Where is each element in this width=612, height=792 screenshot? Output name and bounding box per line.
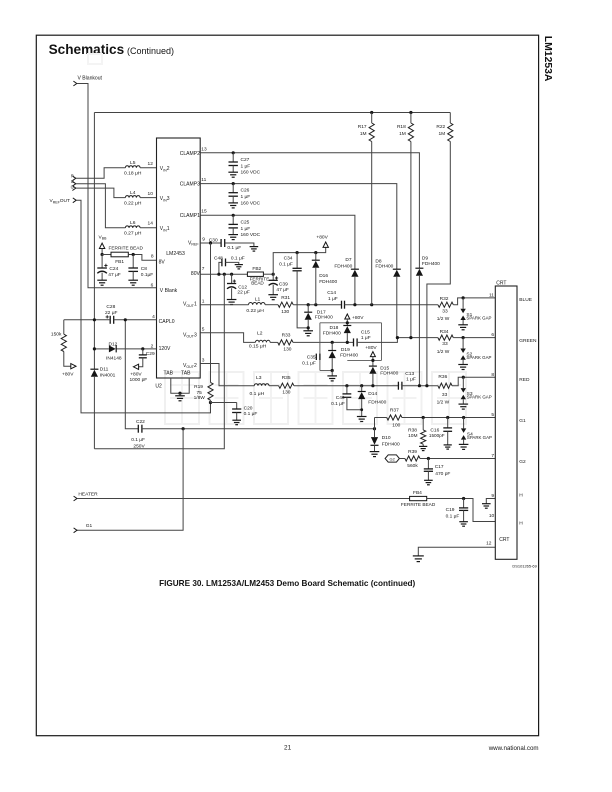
ground C20 (232, 420, 241, 425)
svg-text:0.1 μF: 0.1 μF (231, 256, 245, 262)
svg-text:100: 100 (392, 423, 400, 429)
svg-text:22 μF: 22 μF (237, 290, 249, 296)
svg-text:FDH400: FDH400 (375, 263, 393, 269)
node R18 top (409, 111, 412, 114)
svg-text:LM1253A: LM1253A (542, 36, 553, 82)
svg-text:LM2453: LM2453 (166, 251, 185, 257)
spark gap S3 (459, 377, 492, 409)
svg-text:C24: C24 (109, 266, 118, 272)
svg-text:SPARK GAP: SPARK GAP (467, 435, 492, 440)
svg-text:0.15 μH: 0.15 μH (249, 344, 267, 350)
svg-text:FDH400: FDH400 (340, 353, 358, 359)
capacitor C22 (131, 419, 145, 449)
wire 80V down to bottom rail (94, 274, 224, 449)
svg-text:C17: C17 (435, 464, 444, 470)
wire V Blankout to pin 6 (77, 84, 157, 288)
svg-text:C20: C20 (244, 405, 253, 411)
svg-text:FERRITE BEAD: FERRITE BEAD (109, 245, 144, 251)
svg-text:22 μF: 22 μF (105, 310, 117, 316)
node D16 junction (314, 303, 317, 306)
svg-text:1 μF: 1 μF (361, 335, 371, 341)
svg-text:H: H (519, 492, 523, 498)
wire R37 to CRT pin 5 (402, 417, 495, 419)
inductor L5 (124, 160, 142, 177)
ground C8 (128, 280, 138, 285)
capacitor C24 (97, 255, 120, 281)
page number (284, 745, 292, 752)
node D8 bottom junction (396, 336, 399, 339)
wire L4 to pin 10 (140, 197, 156, 199)
svg-text:9: 9 (202, 237, 205, 243)
wire B input to L6 (76, 184, 126, 228)
U2 tab to ground (171, 378, 189, 401)
resistor R36 (437, 374, 452, 405)
svg-text:G1: G1 (86, 523, 93, 529)
capacitor C48 (214, 256, 245, 275)
node R22 bottom junction (425, 384, 428, 387)
wire CLAMP3 row pin 11 (200, 184, 397, 270)
svg-text:R37: R37 (390, 407, 399, 413)
svg-text:5: 5 (202, 327, 205, 333)
svg-text:IN4148: IN4148 (106, 355, 122, 361)
svg-text:Schematics: Schematics (49, 42, 125, 57)
svg-text:0.1 μF: 0.1 μF (302, 360, 316, 366)
diode D15 FDH400 (369, 366, 399, 386)
resistor R33 (278, 333, 293, 353)
svg-text:www.national.com: www.national.com (488, 745, 539, 752)
svg-text:250V: 250V (133, 443, 145, 449)
svg-text:D19: D19 (341, 347, 350, 353)
input HEATER (74, 491, 99, 501)
svg-text:1M: 1M (360, 131, 367, 137)
node S3 junction (462, 376, 465, 379)
svg-text:12: 12 (148, 161, 154, 167)
svg-text:CLAMP1: CLAMP1 (180, 213, 200, 219)
capacitor C34 (279, 253, 308, 328)
ground C48 (235, 265, 243, 269)
svg-text:R31: R31 (281, 295, 290, 301)
node R17 junction (370, 303, 373, 306)
svg-text:D16: D16 (319, 273, 328, 279)
node C48 junction (217, 273, 220, 276)
svg-text:L3: L3 (256, 375, 262, 381)
node D15 bottom junction (371, 384, 374, 387)
svg-text:FB1: FB1 (115, 259, 124, 265)
capacitor C26 (229, 184, 261, 207)
input VREF OUT (50, 198, 77, 204)
svg-text:V Blankout: V Blankout (78, 76, 103, 82)
svg-text:CRT: CRT (496, 281, 506, 287)
svg-text:TAB: TAB (181, 370, 191, 376)
wire FB2 to C39 node (263, 273, 273, 275)
svg-text:14: 14 (148, 221, 154, 227)
capacitor C8 (128, 255, 153, 281)
svg-text:R: R (71, 173, 74, 178)
wire CAPLO row (64, 319, 157, 321)
svg-text:SPARK GAP: SPARK GAP (466, 315, 491, 320)
ferrite bead FB1 (111, 252, 128, 265)
node D7 junction (353, 303, 356, 306)
svg-text:GREEN: GREEN (519, 338, 537, 344)
svg-text:130: 130 (282, 390, 290, 396)
wire heater to FB4 (77, 498, 410, 500)
wire G1 branch down (77, 429, 183, 531)
svg-text:10: 10 (489, 513, 495, 519)
svg-text:FERRITE BEAD: FERRITE BEAD (401, 502, 436, 508)
diode D16 FDH400 (312, 253, 338, 305)
node C29 junction (141, 347, 144, 350)
wire R32 to CRT pin 11 (453, 298, 495, 305)
svg-text:+80V: +80V (365, 345, 377, 351)
label FERRITE BEAD (FB1) (109, 245, 144, 251)
wire rail below D11 (93, 377, 95, 449)
svg-text:0.1μF: 0.1μF (141, 272, 153, 278)
wire C22 row (125, 320, 138, 429)
resistor R31 (278, 295, 293, 315)
svg-text:1 μF: 1 μF (241, 163, 251, 169)
node C19 junction (462, 497, 465, 500)
wire R35 to C13 (294, 385, 399, 387)
svg-text:+80V: +80V (130, 372, 142, 378)
inductor L4 (124, 190, 142, 206)
wire R34 to CRT pin 6 (453, 337, 495, 339)
svg-text:C26: C26 (241, 188, 250, 194)
diode D12 IN4148 (106, 341, 122, 361)
svg-text:1: 1 (202, 299, 205, 305)
capacitor C19 (446, 499, 469, 522)
svg-text:1M: 1M (438, 131, 445, 137)
svg-text:1500pF: 1500pF (429, 433, 445, 438)
wire C15 to R34 (357, 338, 438, 343)
svg-text:VREFOUT: VREFOUT (50, 198, 70, 204)
wire C22 to D10 node (142, 428, 375, 430)
svg-text:CLAMP2: CLAMP2 (180, 151, 200, 157)
wire VOUT1 pin 1 (200, 304, 248, 306)
capacitor C17 470pF (424, 459, 451, 481)
node S4 junction (462, 416, 465, 419)
svg-text:R34: R34 (440, 329, 449, 335)
svg-text:FDH400: FDH400 (422, 261, 440, 267)
svg-text:FDH400: FDH400 (380, 371, 398, 377)
svg-text:D17: D17 (317, 309, 326, 315)
svg-text:FDH400: FDH400 (315, 315, 333, 321)
svg-text:0.22 μH: 0.22 μH (124, 200, 142, 206)
capacitor C28 (105, 304, 117, 324)
svg-text:1/2 W: 1/2 W (437, 399, 450, 405)
svg-text:1/8W: 1/8W (194, 395, 206, 401)
svg-text:4: 4 (152, 314, 155, 320)
ground D17 (303, 331, 313, 336)
resistor R34 (437, 329, 454, 355)
watermark (88, 54, 466, 424)
svg-text:0.27 μH: 0.27 μH (124, 231, 142, 237)
wire CLAMP1 row pin 15 (200, 215, 355, 269)
svg-text:11: 11 (489, 293, 494, 299)
resistor R35 (279, 375, 294, 396)
wire 120V row pin 2 (94, 348, 156, 350)
input V Blankout (73, 76, 102, 86)
spark gap S2 (458, 338, 491, 370)
svg-text:FDH400: FDH400 (368, 400, 386, 406)
svg-text:C34: C34 (284, 256, 293, 262)
resistor R38 10M (408, 418, 426, 447)
svg-text:G1: G1 (519, 418, 526, 424)
svg-text:D10: D10 (382, 435, 391, 441)
input B (71, 179, 76, 186)
wire R31 to C14 (293, 304, 341, 306)
svg-text:6: 6 (491, 332, 494, 338)
wire C13 to R36 (402, 385, 438, 387)
svg-text:8V: 8V (159, 260, 166, 266)
svg-text:BEAD: BEAD (251, 280, 264, 285)
ferrite bead FB4 (401, 490, 436, 508)
wire L1 to R31 (265, 304, 278, 306)
node D16 top junction (314, 251, 317, 254)
diode D9 FDH400 (415, 255, 440, 385)
svg-text:R36: R36 (438, 374, 447, 380)
node VREF junction (209, 241, 212, 244)
wire +80V rail left vertical (93, 113, 95, 370)
svg-text:CLAMP3: CLAMP3 (180, 182, 200, 188)
wire FB1 to pin 8 (128, 255, 156, 261)
svg-text:R32: R32 (440, 296, 449, 302)
wire R input to L5 (76, 168, 126, 179)
svg-text:C22: C22 (136, 419, 145, 425)
svg-text:1000 pF: 1000 pF (130, 377, 148, 383)
svg-text:160 VDC: 160 VDC (241, 200, 261, 206)
svg-text:+80V: +80V (352, 315, 364, 321)
svg-text:33: 33 (442, 392, 448, 398)
svg-text:R17: R17 (358, 124, 367, 130)
resistor R18 1M (397, 113, 414, 338)
ground R38 (419, 446, 427, 450)
node D12 rail junction (93, 347, 96, 350)
resistor 150k (51, 320, 71, 366)
svg-text:0.1 μF: 0.1 μF (244, 411, 258, 417)
inductor L2 (249, 331, 270, 350)
svg-text:12: 12 (486, 541, 492, 547)
wire R37 row (375, 417, 387, 419)
svg-text:1 μF: 1 μF (328, 296, 338, 302)
resistor R37 (387, 407, 402, 428)
svg-text:RED: RED (519, 377, 530, 383)
svg-text:+80V: +80V (62, 372, 74, 378)
svg-text:0.1 μF: 0.1 μF (446, 513, 460, 519)
wire 80V pin 7 (200, 273, 247, 275)
svg-text:D12: D12 (109, 341, 118, 347)
node C12 junction (230, 273, 233, 276)
svg-text:120V: 120V (159, 346, 171, 352)
svg-text:C8: C8 (141, 266, 147, 272)
ground C16 (444, 445, 452, 449)
ground C17 (424, 480, 433, 485)
diode D19 FDH400 (328, 342, 358, 376)
ground C39 (268, 295, 278, 300)
node C46 junction (345, 384, 348, 387)
spark gap S1 (458, 298, 491, 330)
svg-text:5: 5 (491, 412, 494, 418)
svg-text:0.1 μH: 0.1 μH (250, 391, 265, 397)
svg-text:R33: R33 (282, 333, 291, 339)
ground D19 (327, 376, 337, 381)
node R19 bottom junction (209, 400, 212, 404)
wire R39 to CRT pin 7 (420, 458, 495, 460)
svg-text:L1: L1 (255, 297, 261, 303)
node D18 box junction (346, 321, 349, 324)
svg-text:1/2 W: 1/2 W (437, 349, 450, 355)
capacitor C25 (229, 215, 261, 238)
svg-text:7: 7 (202, 266, 205, 272)
svg-text:FB2: FB2 (252, 266, 261, 272)
svg-text:+80V: +80V (316, 235, 328, 241)
power flag +80V C29 (130, 364, 148, 383)
ground D10 (370, 452, 380, 457)
capacitor C16 (429, 418, 452, 445)
pin numbers U2 right (201, 147, 207, 364)
svg-text:1 μF: 1 μF (241, 226, 251, 232)
svg-text:FDH400: FDH400 (319, 279, 337, 285)
node D14 junction (360, 384, 363, 387)
wire L5 to pin 12 (140, 167, 156, 169)
svg-text:6: 6 (151, 282, 154, 288)
svg-text:C46: C46 (336, 395, 345, 401)
node D17 junction (307, 303, 310, 306)
node CAPLO rail junction (93, 318, 96, 321)
node C16 junction (446, 416, 449, 419)
capacitor C46 (331, 386, 362, 410)
inductor L1 (246, 297, 265, 315)
svg-text:V Blank: V Blank (160, 288, 178, 294)
svg-text:130: 130 (283, 347, 291, 353)
connector CRT (495, 281, 517, 560)
pin numbers U2 left (148, 161, 156, 349)
svg-text:10: 10 (148, 191, 154, 197)
CRT pin labels right (519, 297, 537, 527)
capacitor C39 (269, 274, 289, 295)
op-amp U2 LM2453 body (157, 138, 201, 378)
node C22 riser junction (124, 318, 127, 321)
svg-text:CRT: CRT (499, 537, 509, 543)
svg-text:160 VDC: 160 VDC (241, 170, 261, 176)
wire top rail +80V (94, 112, 450, 114)
ground CRT pin 9 (482, 499, 495, 509)
wire CRT pin 12 to ground (418, 547, 495, 556)
node 80V rail junction (223, 273, 226, 276)
page frame (36, 35, 538, 736)
svg-text:130: 130 (281, 309, 289, 315)
resistor R19 75 (194, 382, 214, 400)
svg-text:C27: C27 (241, 157, 250, 163)
svg-text:0.18 μH: 0.18 μH (124, 171, 142, 177)
svg-text:7: 7 (491, 453, 494, 459)
svg-text:R22: R22 (436, 124, 445, 130)
resistor R22 1M (427, 113, 453, 386)
svg-text:0.22 μH: 0.22 μH (246, 308, 264, 314)
power flag +80V D15 (365, 345, 377, 366)
node D15 +80V junction (371, 359, 374, 362)
svg-text:D11: D11 (100, 367, 109, 373)
resistor R32 (437, 296, 454, 322)
node C27 junction (232, 151, 235, 154)
svg-text:FDH400: FDH400 (382, 442, 400, 448)
wire R33 to C15 (293, 341, 354, 343)
svg-text:FDH400: FDH400 (323, 330, 341, 336)
node R38 junction (422, 416, 425, 419)
svg-text:C28: C28 (106, 304, 115, 310)
svg-text:D18: D18 (330, 325, 339, 331)
svg-text:470 pF: 470 pF (435, 471, 450, 477)
diode D18 FDH400 (323, 325, 352, 342)
wire VREF OUT to R19 bottom (76, 200, 210, 413)
svg-text:C13: C13 (405, 371, 414, 377)
svg-text:C35: C35 (307, 354, 316, 360)
node C17 junction (427, 457, 430, 460)
footer url (488, 745, 539, 752)
svg-text:0.1 μF: 0.1 μF (331, 401, 345, 407)
svg-text:9: 9 (491, 493, 494, 499)
svg-text:1/2 W: 1/2 W (437, 316, 450, 322)
node C34 junction (296, 251, 299, 254)
svg-text:3: 3 (202, 357, 205, 363)
node R17 top (370, 111, 373, 114)
node R18 bottom junction (409, 336, 412, 339)
svg-text:L5: L5 (130, 160, 136, 166)
wire G input to L4 (76, 188, 126, 198)
svg-text:C19: C19 (446, 507, 455, 513)
capacitor C35 (302, 354, 320, 367)
wire VOUT2 pin 3 (200, 364, 254, 386)
svg-text:11: 11 (201, 177, 206, 183)
svg-text:R35: R35 (282, 375, 291, 381)
svg-text:SPARK GAP: SPARK GAP (466, 355, 491, 360)
svg-text:H: H (519, 521, 523, 527)
ground C25 (228, 235, 238, 240)
svg-text:U2: U2 (155, 384, 162, 390)
svg-text:33: 33 (442, 308, 448, 314)
node S1 junction (462, 296, 465, 299)
capacitor C15 (354, 329, 371, 346)
CRT pin numbers (486, 293, 494, 547)
wire VOUT3 pin 5 (200, 333, 255, 343)
sidebar part number LM1253A (542, 36, 553, 82)
svg-text:1M: 1M (399, 131, 406, 137)
input G1 (74, 523, 93, 533)
node D18 junction (346, 341, 349, 344)
svg-text:21: 21 (284, 745, 292, 752)
svg-text:FDH400: FDH400 (334, 263, 352, 269)
svg-text:47 μF: 47 μF (276, 287, 288, 293)
input R (71, 173, 76, 180)
label DS101265-69 (512, 564, 537, 569)
power flag +80V D18 (345, 314, 364, 326)
svg-text:G2: G2 (390, 456, 395, 461)
svg-text:1 μF: 1 μF (406, 377, 416, 383)
svg-text:80V: 80V (191, 271, 201, 277)
svg-text:TAB: TAB (164, 370, 174, 376)
diode D17 FDH400 (304, 305, 333, 331)
spark gap S4 (459, 418, 492, 450)
svg-text:47 μF: 47 μF (108, 272, 120, 278)
resistor R39 560k (405, 449, 420, 469)
wire VBB to FB1 (102, 254, 111, 256)
svg-text:D7: D7 (345, 257, 351, 263)
inductor L3 (250, 375, 269, 397)
svg-text:CAPL0: CAPL0 (159, 319, 175, 325)
node FB1 left junction (101, 253, 104, 256)
ground D14 (357, 417, 367, 422)
svg-text:R38: R38 (408, 428, 417, 434)
wire C14 to R32 (345, 304, 438, 306)
